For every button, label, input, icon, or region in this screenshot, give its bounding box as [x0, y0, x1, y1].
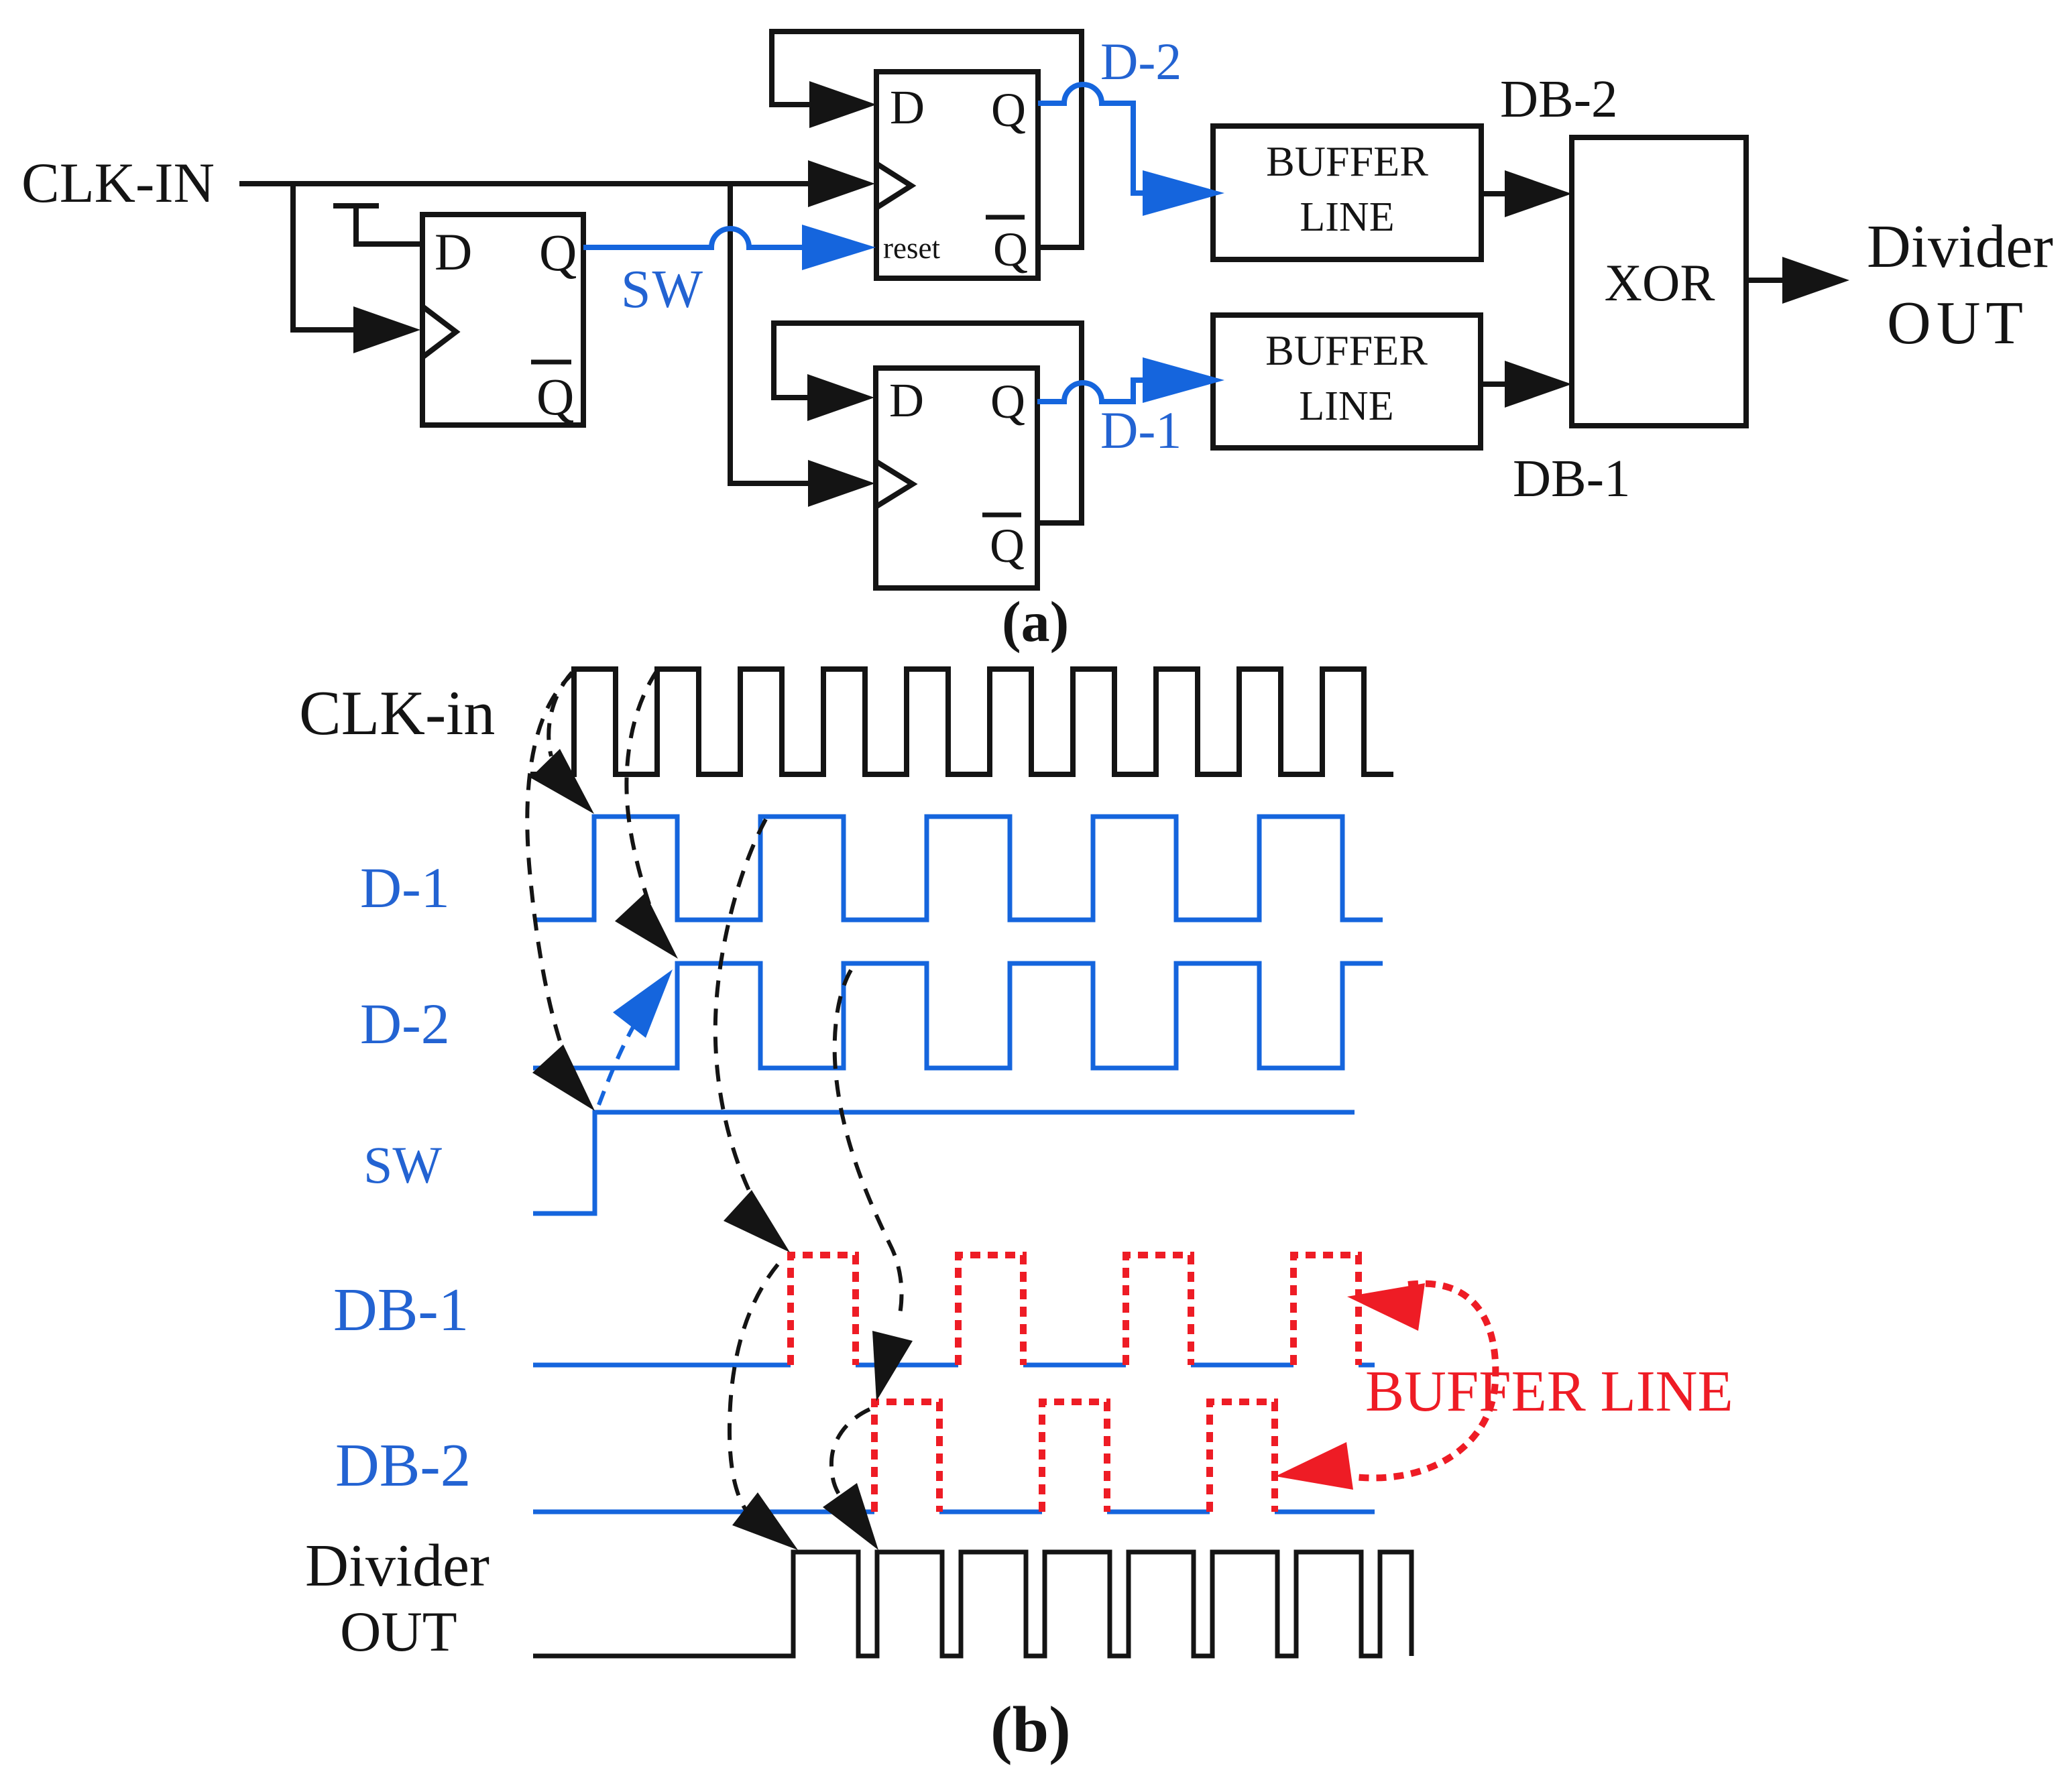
- svg-text:OUT: OUT: [340, 1600, 457, 1663]
- svg-text:D: D: [890, 80, 925, 134]
- svg-text:D-2: D-2: [360, 992, 450, 1056]
- svg-text:DB-1: DB-1: [333, 1276, 469, 1344]
- svg-text:Q: Q: [993, 223, 1028, 276]
- svg-text:DB-2: DB-2: [1500, 70, 1618, 129]
- svg-text:SW: SW: [363, 1136, 442, 1194]
- svg-text:DB-1: DB-1: [1513, 450, 1631, 508]
- svg-text:D-1: D-1: [1100, 401, 1182, 459]
- svg-text:CLK-in: CLK-in: [299, 678, 495, 748]
- svg-text:BUFFER: BUFFER: [1266, 137, 1428, 185]
- svg-text:LINE: LINE: [1300, 194, 1394, 240]
- svg-text:SW: SW: [621, 260, 704, 319]
- svg-text:DB-2: DB-2: [335, 1431, 471, 1499]
- svg-text:CLK-IN: CLK-IN: [21, 152, 215, 215]
- svg-text:Q: Q: [991, 83, 1026, 137]
- svg-text:LINE: LINE: [1299, 383, 1393, 429]
- svg-text:(a): (a): [1002, 589, 1069, 654]
- svg-text:D: D: [889, 373, 924, 427]
- svg-text:Q: Q: [536, 367, 574, 426]
- svg-text:BUFFER LINE: BUFFER LINE: [1365, 1358, 1733, 1423]
- svg-text:D-2: D-2: [1100, 32, 1182, 91]
- svg-text:(b): (b): [990, 1694, 1071, 1766]
- svg-text:D: D: [435, 223, 472, 281]
- svg-text:Q: Q: [990, 519, 1025, 573]
- svg-text:OUT: OUT: [1887, 289, 2028, 357]
- svg-text:D-1: D-1: [360, 855, 450, 920]
- svg-text:Q: Q: [990, 375, 1025, 428]
- svg-text:Divider: Divider: [305, 1533, 490, 1599]
- svg-text:XOR: XOR: [1605, 253, 1715, 312]
- svg-text:reset: reset: [883, 231, 940, 265]
- svg-text:Q: Q: [539, 223, 577, 282]
- svg-text:BUFFER: BUFFER: [1265, 326, 1428, 374]
- svg-text:Divider: Divider: [1867, 213, 2053, 280]
